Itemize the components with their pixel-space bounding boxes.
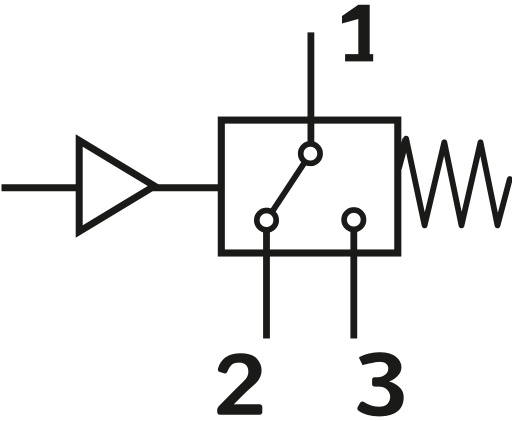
wire: switch lever diagonal: [267, 154, 311, 221]
switch box: [221, 120, 397, 253]
wire: input lead left: [2, 184, 81, 191]
label 1: [342, 5, 373, 62]
wire: port 1 top lead: [307, 32, 314, 153]
op-amp buffer triangle: [79, 141, 154, 232]
resistor R zigzag: [406, 139, 510, 226]
wire: port 2 bottom-left lead: [263, 220, 270, 338]
wire: amplifier output to box: [152, 184, 219, 191]
resistor R zigzag first segment: [398, 139, 406, 169]
node: bottom-right contact circle: [344, 210, 363, 229]
node: bottom-left contact circle: [257, 211, 276, 230]
node: top contact circle: [301, 144, 320, 163]
wire: port 3 bottom-right lead: [350, 220, 357, 339]
label 3: [357, 352, 403, 416]
label 2: [217, 353, 262, 415]
